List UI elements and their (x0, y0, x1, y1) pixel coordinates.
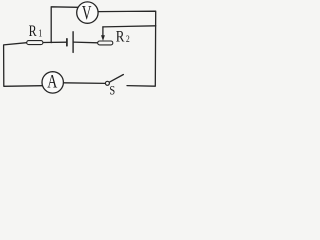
svg-text:1: 1 (38, 28, 42, 39)
svg-text:2: 2 (126, 33, 130, 44)
svg-text:A: A (47, 70, 57, 92)
svg-text:V: V (82, 1, 92, 23)
svg-text:R: R (116, 28, 125, 45)
svg-text:S: S (109, 83, 115, 97)
svg-text:R: R (29, 23, 38, 40)
